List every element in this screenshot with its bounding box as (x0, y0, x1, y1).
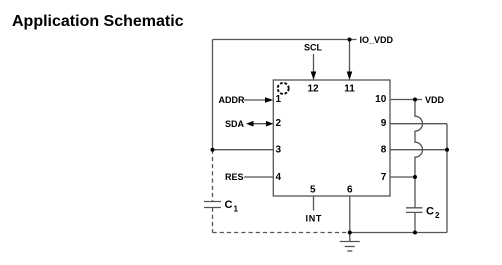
arrowhead: SCL into pin 12 (311, 72, 317, 81)
wire: dashed bottom horizontal (213, 232, 350, 234)
title (12, 13, 184, 31)
wire: VDD vertical pin7 node to C2 top (414, 177, 416, 208)
arrowhead: SDA left head (246, 121, 254, 127)
wire: pin 8 to right vertical (390, 149, 447, 151)
svg-text:IO_VDD: IO_VDD (360, 35, 394, 45)
svg-text:SCL: SCL (304, 43, 323, 53)
wire: pin 3 to left vertical (213, 149, 274, 151)
svg-text:4: 4 (276, 172, 282, 183)
arrowhead: IO_VDD into pin 11 (347, 72, 353, 81)
wire: pin 10 to VDD node (390, 99, 415, 101)
arrowhead: ADDR into pin 1 (265, 97, 273, 103)
capacitor C2 plates (406, 207, 423, 209)
wire: bottom solid horizontal ground rail (350, 232, 447, 234)
svg-text:2: 2 (435, 211, 440, 220)
wire: C2 bottom to ground rail (414, 212, 416, 232)
IC U1 body (273, 80, 390, 196)
wire: right vertical from pin9 corner to ground rail (446, 124, 448, 233)
wire: SCL arrow shaft (313, 54, 315, 73)
wire: VDD vertical with hops over pin9 and pin8 wires (415, 100, 423, 178)
svg-text:6: 6 (347, 185, 353, 196)
svg-text:1: 1 (234, 205, 239, 214)
svg-text:8: 8 (381, 145, 387, 156)
pin-1 indicator circle (278, 83, 289, 94)
svg-text:SDA: SDA (225, 119, 245, 129)
wire: IO_VDD arrow shaft (349, 40, 351, 74)
wire: SDA lead (250, 123, 267, 125)
wire: pin 6 down to ground rail (349, 196, 351, 233)
svg-text:VDD: VDD (425, 95, 445, 105)
arrowhead: SDA right head into pin 2 (266, 121, 273, 127)
node: C2 / ground rail junction (413, 231, 417, 235)
node: pin7 / VDD vertical junction (413, 175, 417, 179)
wire: top horizontal IO_VDD rail (213, 39, 357, 41)
wire: pin 7 to VDD vertical (390, 176, 415, 178)
svg-text:2: 2 (276, 118, 282, 129)
svg-text:9: 9 (381, 118, 387, 129)
svg-text:3: 3 (276, 145, 282, 156)
node: ground rail / pin6 junction (348, 231, 352, 235)
node: pin3 / left rail junction (211, 148, 215, 152)
svg-text:7: 7 (381, 172, 387, 183)
svg-text:1: 1 (276, 94, 282, 105)
wire: RES lead (244, 176, 273, 178)
svg-text:INT: INT (306, 214, 323, 224)
node: IO_VDD junction (348, 38, 352, 42)
svg-text:ADDR: ADDR (219, 95, 245, 105)
svg-text:C: C (225, 199, 233, 211)
svg-text:5: 5 (310, 185, 316, 196)
svg-text:12: 12 (307, 83, 319, 94)
node: pin8 / right rail junction (445, 148, 449, 152)
wire: dashed left vertical (RES decoupling) upper segment (212, 150, 214, 202)
svg-text:10: 10 (375, 94, 387, 105)
wire: pin 5 stub down (313, 196, 315, 211)
wire: ADDR lead (244, 99, 266, 101)
svg-text:C: C (426, 206, 434, 218)
wire: left vertical from top rail down to pin3 node (212, 40, 214, 150)
wire: pin 9 to right corner (390, 123, 447, 125)
node: VDD junction (413, 98, 417, 102)
wire: VDD node to label (415, 99, 422, 101)
capacitor C1 plates (204, 201, 221, 203)
svg-text:11: 11 (344, 83, 355, 94)
wire: dashed left vertical lower segment below C1 (212, 208, 214, 233)
ground (340, 233, 360, 252)
svg-text:RES: RES (225, 172, 244, 182)
